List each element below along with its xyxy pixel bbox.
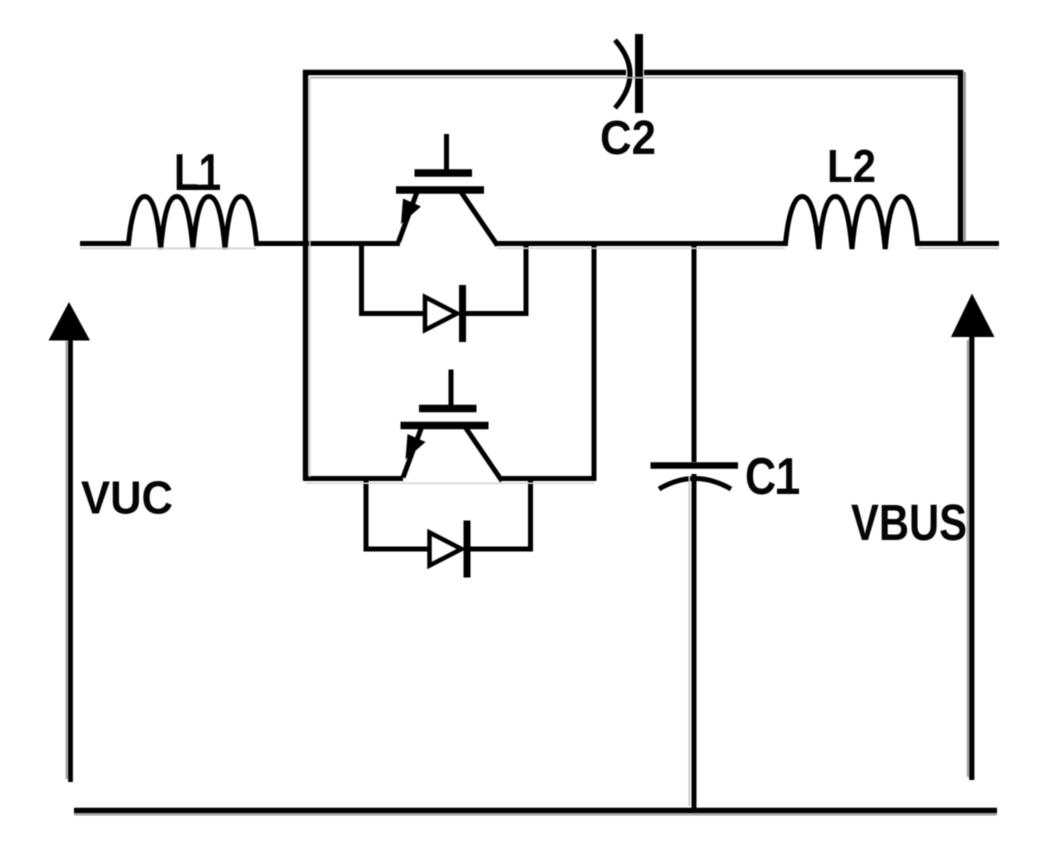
svg-text:L1: L1 (174, 144, 221, 202)
svg-text:VBUS: VBUS (851, 494, 967, 551)
svg-text:C1: C1 (745, 448, 800, 506)
svg-text:VUC: VUC (81, 472, 173, 524)
svg-text:C2: C2 (600, 112, 656, 165)
svg-text:L2: L2 (827, 140, 876, 192)
